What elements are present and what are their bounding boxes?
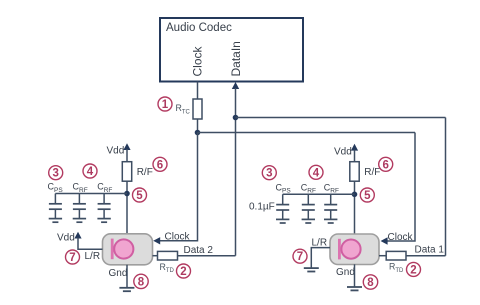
capacitor CPS left xyxy=(49,194,62,219)
wire MK2 Gnd pin xyxy=(354,264,356,287)
pin label Clock (U1) xyxy=(191,45,205,76)
wire data1 vertical right xyxy=(445,118,447,256)
svg-text:R/F: R/F xyxy=(137,167,153,178)
svg-text:2: 2 xyxy=(180,266,186,278)
svg-text:8: 8 xyxy=(138,276,145,288)
svg-text:Vdd: Vdd xyxy=(334,147,352,158)
power flag Vdd at MK1 L/R (arrow) xyxy=(74,232,81,239)
wire Vdd to RF right xyxy=(354,150,356,162)
svg-text:7: 7 xyxy=(69,252,75,264)
svg-text:RTD: RTD xyxy=(160,262,175,274)
svg-text:CRF: CRF xyxy=(301,182,316,194)
callout marker 6 right xyxy=(379,157,393,171)
svg-text:Gnd: Gnd xyxy=(336,267,355,278)
node 5 junction right xyxy=(352,192,358,198)
svg-text:5: 5 xyxy=(364,190,371,202)
svg-text:3: 3 xyxy=(52,168,58,180)
microphone MK1 symbol xyxy=(111,239,134,260)
callout marker 7 right xyxy=(293,249,307,263)
callout marker 6 left xyxy=(153,157,167,171)
callout marker 4 right xyxy=(309,165,323,179)
svg-text:Gnd: Gnd xyxy=(109,268,128,279)
ground MK2 xyxy=(347,287,362,290)
IC U1 Audio Codec xyxy=(160,18,303,82)
capacitor CPS right xyxy=(276,194,289,219)
svg-text:CPS: CPS xyxy=(276,182,292,194)
node 5 junction left xyxy=(124,191,130,197)
pin label DataIn (U1) xyxy=(229,41,243,76)
wire RF to mic MK1 vertical xyxy=(126,181,128,234)
wire capacitor bus right xyxy=(283,193,355,195)
wire data2 MK1 to RTD1 xyxy=(153,255,158,257)
microphone MK2 body xyxy=(330,234,379,265)
svg-text:0.1µF: 0.1µF xyxy=(249,202,275,213)
wire Vdd to MK1 L/R pin xyxy=(78,238,103,250)
wire data2 vertical to U1 xyxy=(235,88,237,256)
wire data2 RTD1 to DataIn riser xyxy=(178,255,236,257)
ground MK1 xyxy=(119,288,134,291)
svg-text:CRF: CRF xyxy=(73,182,88,194)
svg-text:8: 8 xyxy=(367,277,374,289)
callout marker 1 xyxy=(158,97,172,111)
svg-text:Vdd: Vdd xyxy=(107,146,125,157)
svg-text:3: 3 xyxy=(266,168,272,180)
capacitor CRF2 left xyxy=(98,194,111,219)
wire Vdd to RF left xyxy=(126,149,128,162)
wire data1 RTD2 to right riser xyxy=(406,255,446,257)
wire MK2 L/R pin to ground xyxy=(311,248,330,268)
wire clock RTC to junction xyxy=(197,119,199,133)
callout marker 5 right xyxy=(360,188,374,202)
wire clock down to left mic xyxy=(160,133,198,241)
callout marker 3 left xyxy=(49,166,63,180)
svg-text:6: 6 xyxy=(157,159,163,171)
svg-text:R/F: R/F xyxy=(364,167,380,178)
callout marker 7 left xyxy=(66,250,80,264)
callout marker 2 left xyxy=(177,264,191,278)
callout marker 8 left xyxy=(134,274,148,288)
svg-text:Vdd: Vdd xyxy=(57,233,75,244)
ground at MK2 L/R xyxy=(304,268,319,271)
svg-text:CRF: CRF xyxy=(97,182,112,194)
junction clock node xyxy=(195,130,201,136)
svg-text:4: 4 xyxy=(313,167,320,179)
wire RF to mic MK2 vertical xyxy=(354,181,356,235)
wire data1 MK2 to RTD2 xyxy=(379,255,386,257)
svg-text:5: 5 xyxy=(136,190,143,202)
wire clock down to right mic xyxy=(388,133,416,242)
microphone MK2 symbol xyxy=(338,239,361,260)
capacitor CRF1 left xyxy=(73,194,86,219)
callout marker 4 left xyxy=(83,164,97,178)
capacitor CRF2 right xyxy=(324,194,337,219)
wire clock pin U1 to RTC xyxy=(197,82,199,100)
svg-text:Data 1: Data 1 xyxy=(415,245,445,256)
resistor RTD2 xyxy=(386,251,406,260)
svg-text:Clock: Clock xyxy=(388,232,414,243)
power flag Vdd right (arrow) xyxy=(351,144,358,151)
svg-text:DataIn: DataIn xyxy=(229,41,243,76)
callout marker 8 right xyxy=(363,275,377,289)
wire MK1 Gnd pin xyxy=(126,265,128,288)
callout marker 2 right xyxy=(407,262,421,276)
svg-text:Clock: Clock xyxy=(191,45,205,76)
svg-text:CRF: CRF xyxy=(324,182,339,194)
ground under CPS right xyxy=(276,219,289,223)
svg-text:Audio Codec: Audio Codec xyxy=(166,22,232,34)
ground under CRF1 left xyxy=(73,219,86,223)
svg-text:4: 4 xyxy=(87,166,94,178)
ground under CRF2 right xyxy=(324,219,337,223)
capacitor CRF1 right xyxy=(302,194,315,219)
junction data node xyxy=(233,115,239,121)
svg-text:Clock: Clock xyxy=(165,232,191,243)
svg-text:2: 2 xyxy=(410,264,416,276)
callout marker 3 right xyxy=(262,166,276,180)
resistor RF right xyxy=(350,162,359,182)
arrowhead data into U1 DataIn xyxy=(232,82,239,89)
power flag Vdd left (arrow) xyxy=(123,143,130,150)
svg-text:7: 7 xyxy=(297,251,303,263)
ground under CPS left xyxy=(49,219,62,223)
wire capacitor bus left xyxy=(55,193,127,195)
svg-text:1: 1 xyxy=(162,99,169,111)
callout marker 5 left xyxy=(133,188,147,202)
svg-text:RTC: RTC xyxy=(176,103,191,115)
svg-text:RTD: RTD xyxy=(389,262,404,274)
microphone MK1 body xyxy=(103,234,153,265)
wire clock bus horizontal to right mic xyxy=(198,132,416,134)
resistor RTC xyxy=(193,99,202,119)
resistor RTD1 xyxy=(158,251,178,260)
svg-text:Data 2: Data 2 xyxy=(184,245,214,256)
arrowhead clock into right mic MK2 xyxy=(381,237,388,244)
svg-text:CPS: CPS xyxy=(48,182,64,194)
svg-text:L/R: L/R xyxy=(85,251,101,262)
arrowhead clock into left mic MK1 xyxy=(153,237,160,244)
svg-text:6: 6 xyxy=(382,159,388,171)
ground under CRF2 left xyxy=(97,219,110,223)
resistor RF left xyxy=(122,162,131,182)
ground under CRF1 right xyxy=(302,219,315,223)
wire data1 horizontal top xyxy=(236,117,446,119)
